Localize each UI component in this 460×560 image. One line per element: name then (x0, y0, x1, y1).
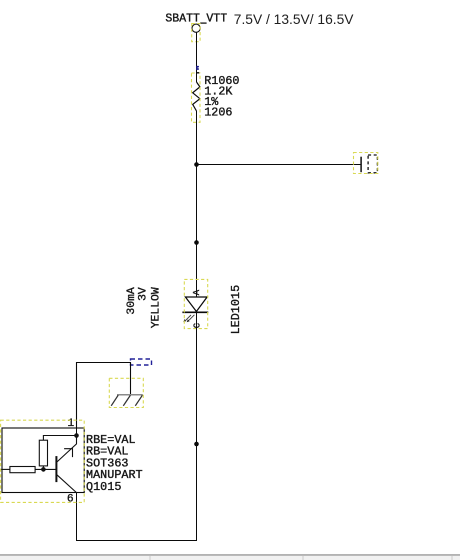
junction dot above LED (194, 240, 199, 245)
svg-text:1206: 1206 (204, 106, 232, 120)
chassis ground symbol (111, 395, 143, 406)
wire resistor to junction (196, 111, 198, 243)
svg-text:A: A (192, 289, 202, 295)
LED emission arrow 1 (183, 315, 191, 322)
LED emission arrow 2 (187, 315, 195, 322)
svg-text:YELLOW: YELLOW (150, 287, 162, 328)
wire RB to base bar (35, 468, 56, 470)
collector diagonal (57, 475, 77, 493)
window bottom scrollbar line (0, 554, 460, 556)
junction dot inside transistor (top) (74, 433, 79, 438)
LED1015 triangle (185, 297, 207, 312)
highlight box on resistor (192, 73, 201, 122)
top-left wire horizontal (76, 362, 131, 364)
svg-text:7.5V / 13.5V/ 16.5V: 7.5V / 13.5V/ 16.5V (234, 12, 354, 27)
wire LED cathode down to bottom rail (196, 312, 198, 540)
RB resistor (horizontal) (10, 467, 35, 473)
svg-text:VTT: VTT (206, 13, 227, 26)
left vertical wire to transistor (76, 362, 78, 428)
RBE resistor (vertical) (39, 440, 47, 466)
highlight box on off-page connector (354, 153, 378, 174)
highlight box on LED (184, 279, 207, 328)
off-page connector dashed body (368, 155, 377, 173)
transistor base bar (55, 456, 57, 482)
wire down to chassis ground (130, 362, 132, 395)
emitter diagonal with stub (57, 436, 77, 463)
wire RBE top to dot (43, 436, 76, 441)
highlight box on transistor (1, 420, 85, 502)
base wire from left edge (0, 468, 10, 470)
LED cathode bar (182, 311, 208, 313)
power symbol circle (192, 24, 200, 32)
junction dot on cathode wire (194, 442, 199, 447)
bottom rail wire (76, 540, 197, 542)
svg-text:C: C (192, 322, 202, 328)
base junction dot (41, 467, 46, 472)
wire junction to LED anode (196, 243, 198, 297)
svg-text:6: 6 (67, 494, 74, 506)
highlight box on power symbol (192, 24, 200, 42)
LED parameter label 30mA 3V YELLOW (rotated) (126, 287, 162, 328)
hidden component (blue dashed box) (131, 359, 152, 365)
resistor R1060 zigzag (193, 82, 200, 111)
highlight box on chassis ground (109, 378, 143, 407)
svg-text:30mA: 30mA (126, 287, 138, 315)
wire from power symbol to resistor (196, 32, 198, 82)
wire pin1 into box to collector dot (76, 428, 78, 444)
svg-text:3V: 3V (137, 287, 149, 301)
horizontal wire to off-page connector (197, 164, 362, 166)
wire pin6 down to bottom rail (76, 493, 78, 541)
pin end tick of resistor (196, 72, 199, 74)
pin number 2 (blue) on resistor top, clipped by wire (196, 66, 199, 70)
transistor Q1015 body box (2, 428, 84, 493)
svg-text:LED1015: LED1015 (229, 285, 243, 335)
junction node at branch (194, 162, 199, 167)
svg-text:Q1015: Q1015 (86, 480, 121, 494)
emitter arrowhead (64, 449, 72, 457)
off-page connector bar (360, 157, 362, 173)
wire RBE bottom to base node (42, 466, 44, 470)
